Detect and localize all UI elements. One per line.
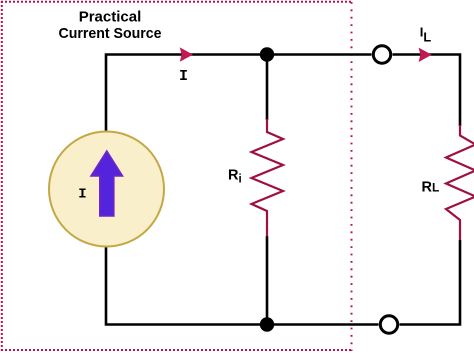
svg-text:Ri: Ri bbox=[228, 167, 242, 185]
svg-text:IL: IL bbox=[420, 25, 432, 45]
svg-text:I: I bbox=[179, 68, 188, 85]
svg-text:Practical: Practical bbox=[79, 9, 142, 26]
svg-text:I: I bbox=[78, 186, 86, 202]
svg-text:Current Source: Current Source bbox=[59, 25, 162, 42]
svg-text:RL: RL bbox=[422, 180, 440, 196]
